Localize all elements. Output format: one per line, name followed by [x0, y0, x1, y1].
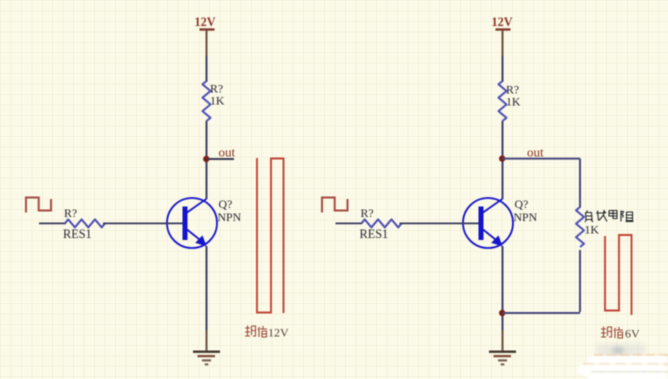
- watermark blur (bottom right): [596, 344, 646, 355]
- wire: R4 to base (right): [400, 222, 479, 224]
- wire: out to load branch (right): [503, 158, 581, 160]
- svg-text:1K: 1K: [506, 95, 521, 109]
- wire: load branch down (right): [579, 159, 581, 208]
- wire: 12V rail to R3 (right): [502, 31, 504, 83]
- node out junction dot (left): [203, 156, 209, 162]
- wire: emitter to ground (left): [206, 246, 208, 351]
- label R1: R? 1K: [210, 82, 225, 108]
- svg-text:12V: 12V: [268, 326, 289, 340]
- node out junction dot (right): [499, 155, 505, 161]
- svg-text:RES1: RES1: [360, 227, 389, 241]
- transistor Q1 NPN (left): [167, 198, 217, 248]
- wire: R2 to base (left): [103, 222, 183, 224]
- wire: R3 to collector node (right): [502, 121, 504, 199]
- wire: 12V rail to R1 (left): [206, 31, 208, 83]
- wire: input to R4 (right): [336, 222, 363, 224]
- svg-text:NPN: NPN: [514, 210, 538, 224]
- power port 12V (left): [195, 15, 216, 31]
- wire: load branch bottom to junction (right): [503, 312, 580, 314]
- svg-text:Q?: Q?: [515, 197, 529, 211]
- resistor R4 RES1 (right horizontal): [362, 219, 402, 227]
- wire: out stub (left): [207, 158, 234, 160]
- svg-text:6V: 6V: [625, 327, 640, 341]
- svg-text:1K: 1K: [210, 94, 225, 108]
- wire: load resistor to bottom (right): [579, 250, 581, 312]
- label Q2: Q? NPN: [514, 197, 538, 224]
- junction dot emitter/load (right): [499, 310, 505, 316]
- resistor R2 RES1 (left horizontal): [65, 219, 105, 227]
- load resistor 1K (right): [576, 207, 584, 247]
- power port 12V (right): [492, 15, 513, 31]
- svg-text:Q?: Q?: [219, 197, 233, 211]
- waveform amplitude 6V (right output): [605, 235, 632, 315]
- label R4: R? RES1: [360, 206, 389, 241]
- svg-text:out: out: [527, 145, 544, 160]
- resistor R3 1K (right vertical): [499, 81, 507, 121]
- svg-text:12V: 12V: [195, 15, 216, 29]
- ground (left): [193, 351, 220, 366]
- label Q1: Q? NPN: [218, 197, 242, 224]
- svg-text:RES1: RES1: [63, 227, 92, 241]
- label 幅值12V (left): [245, 326, 289, 340]
- label R2: R? RES1: [63, 206, 92, 241]
- label load resistor 负载电阻 1K: [585, 210, 634, 237]
- wire: R1 to collector node (left): [206, 121, 208, 199]
- resistor R1 1K (left vertical): [203, 81, 211, 121]
- input pulse symbol (left): [26, 198, 51, 213]
- svg-text:R?: R?: [361, 206, 374, 220]
- label R3: R? 1K: [506, 83, 521, 109]
- wire: input to R2 (left): [39, 222, 66, 224]
- svg-text:out: out: [219, 145, 236, 160]
- svg-text:NPN: NPN: [218, 210, 242, 224]
- waveform amplitude 12V (left output): [257, 158, 284, 313]
- ground (right): [489, 351, 516, 366]
- svg-text:1K: 1K: [585, 223, 600, 237]
- wire: emitter to ground junction (right): [502, 246, 504, 351]
- svg-text:R?: R?: [64, 206, 77, 220]
- label 幅值6V (right): [601, 327, 640, 341]
- input pulse symbol (right): [322, 198, 348, 213]
- transistor Q2 NPN (right): [463, 198, 513, 248]
- svg-text:12V: 12V: [492, 15, 513, 29]
